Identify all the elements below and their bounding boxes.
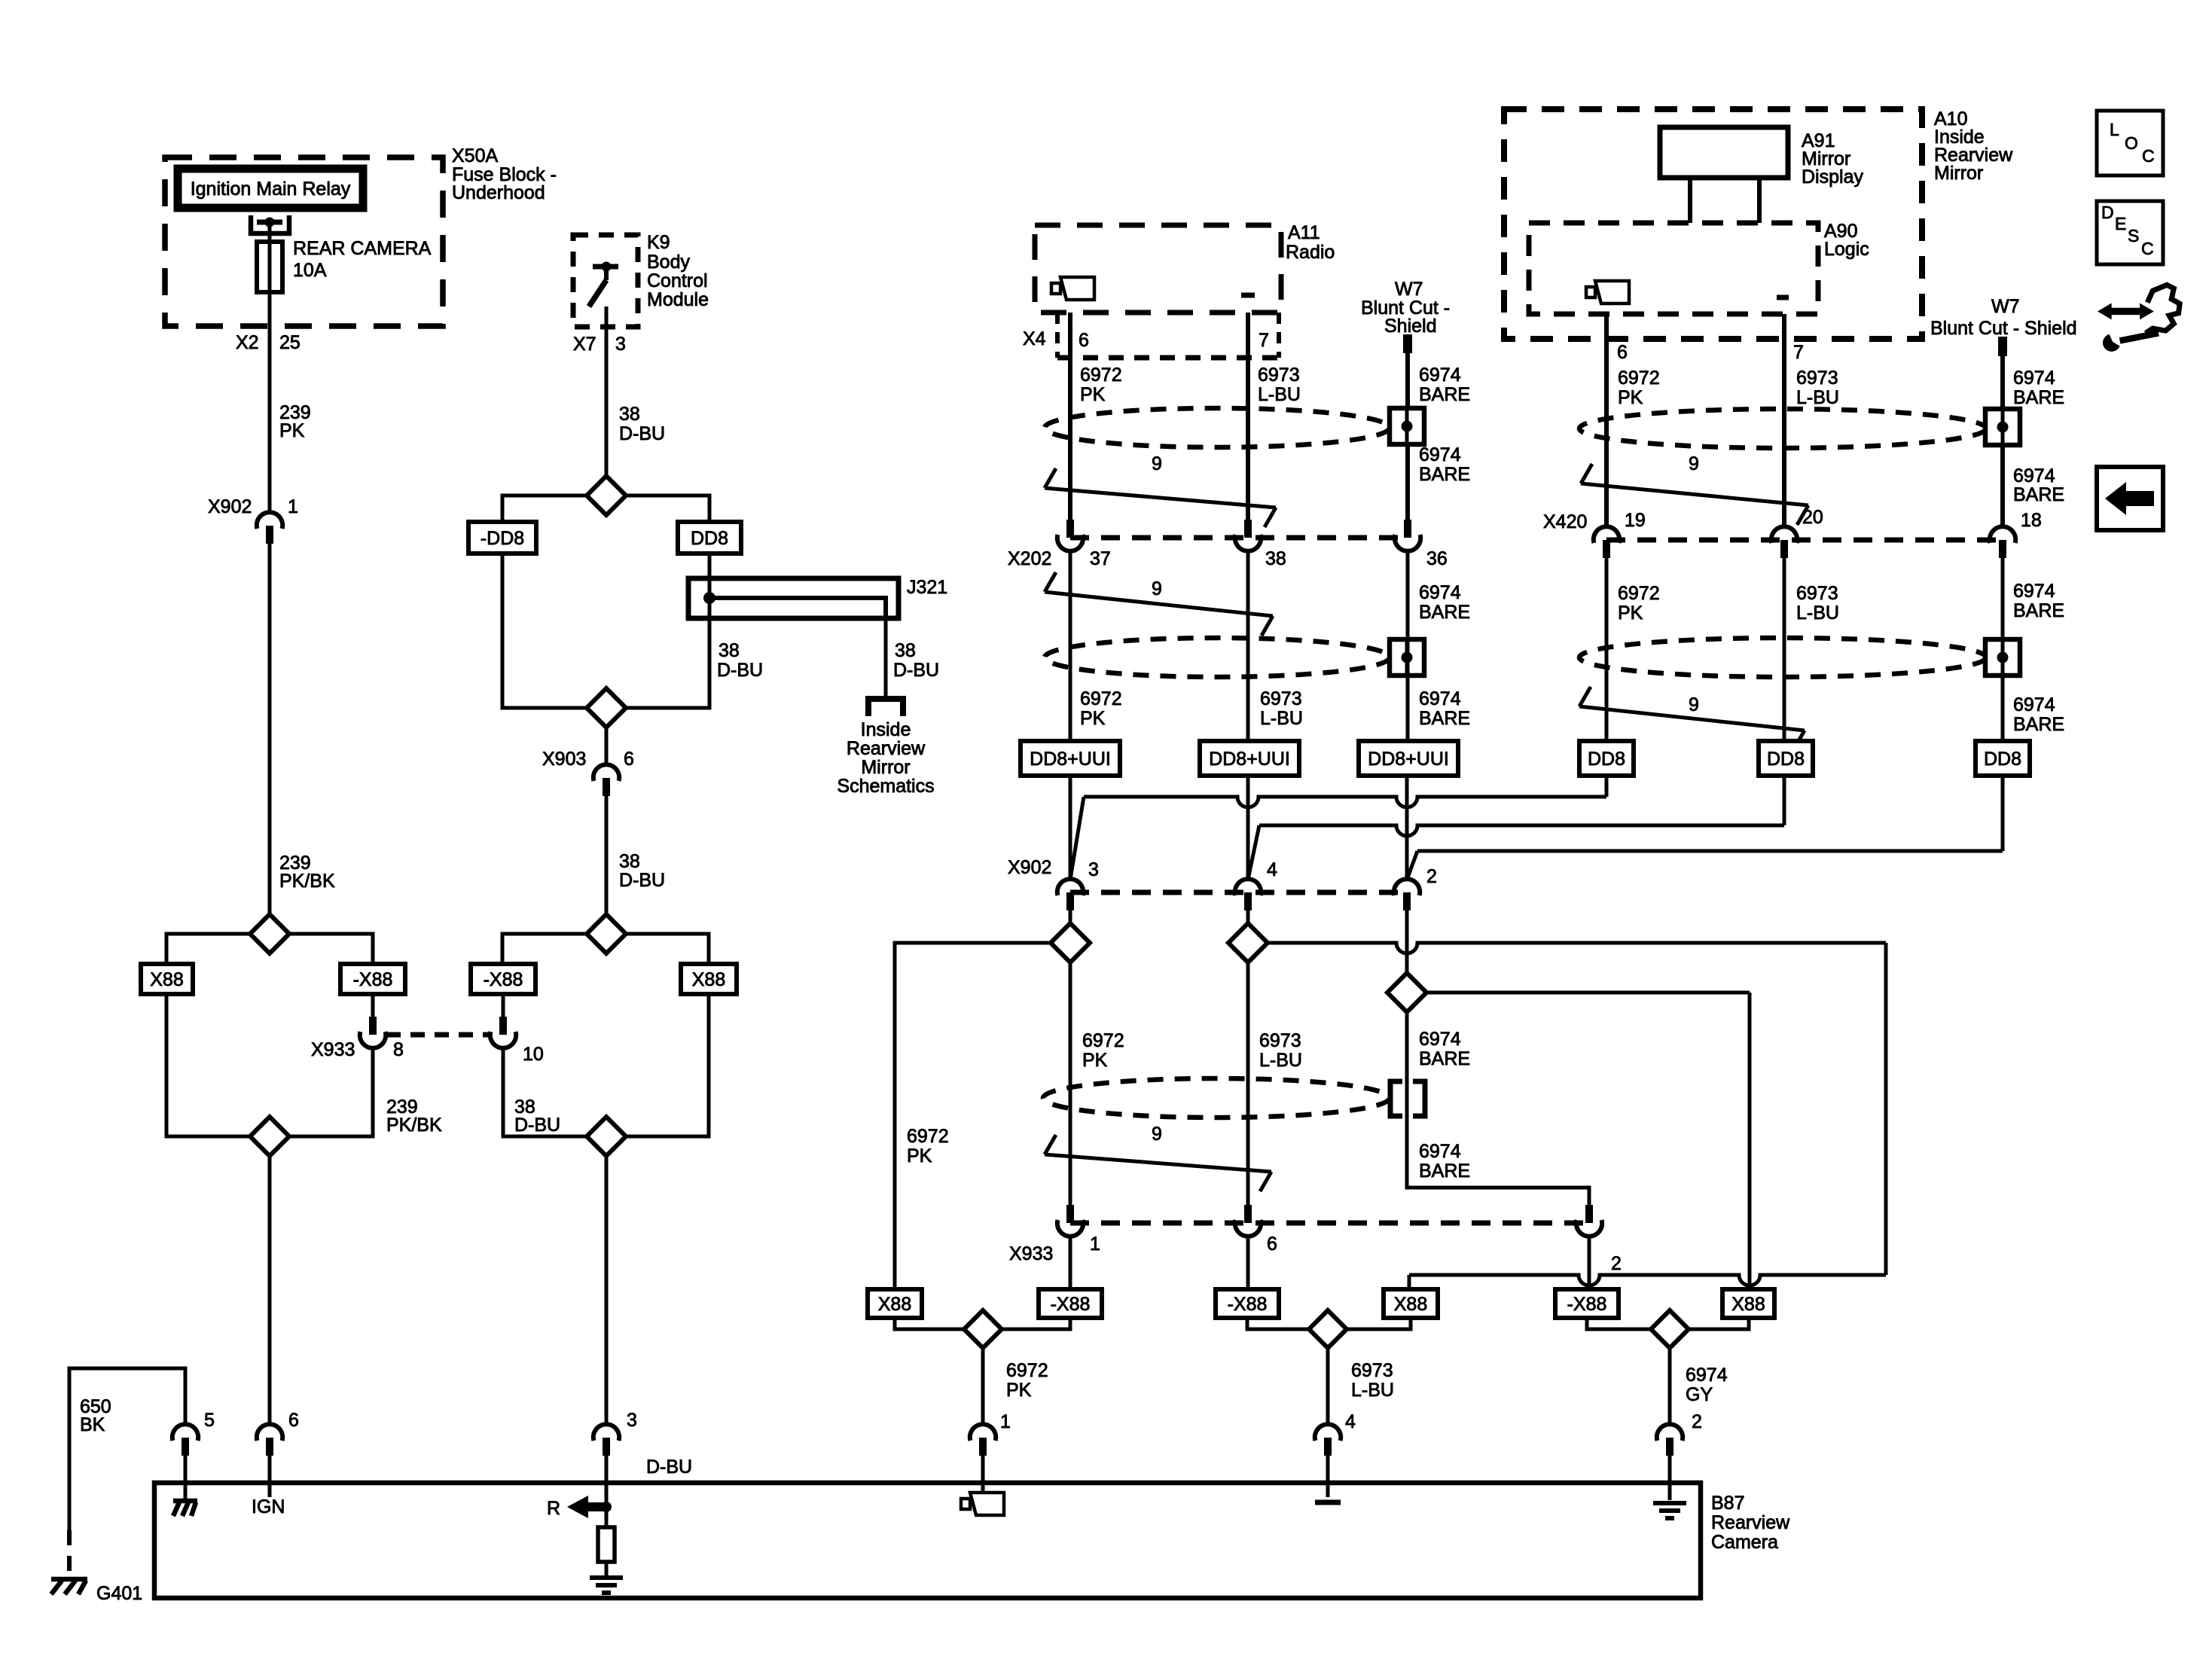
connector X933 pin 8 [311, 994, 404, 1060]
relay contact cup [251, 215, 289, 233]
wire rail DD8 to X902 pin 2 [1407, 776, 2003, 880]
camera icon in B87 [961, 1493, 1004, 1515]
relay K (Ignition Main Relay) [178, 169, 363, 208]
wire 650 BK [69, 1368, 185, 1530]
wire 38 D-BU [606, 306, 665, 476]
minus pin in radio [1241, 293, 1255, 298]
module A11 Radio dashed box [1035, 225, 1281, 313]
svg-text:6974: 6974 [1686, 1365, 1728, 1386]
camera icon in logic [1586, 281, 1629, 303]
svg-text:Radio: Radio [1286, 242, 1335, 263]
connector DD8+UUI [1200, 741, 1299, 776]
svg-text:Body: Body [647, 252, 690, 273]
svg-text:3: 3 [615, 334, 626, 355]
wire 6972 PK pin 1 [983, 1348, 1048, 1432]
connector pin 1 [970, 1424, 996, 1492]
svg-text:BARE: BARE [1419, 708, 1470, 729]
shield bracket connector [1390, 1081, 1425, 1116]
svg-text:2: 2 [1611, 1253, 1622, 1274]
svg-text:18: 18 [2021, 510, 2042, 531]
wire 38 D-BU to offpage [886, 618, 939, 696]
fuse F (REAR CAMERA 10A) [257, 242, 282, 292]
minus pin in logic [1777, 295, 1789, 300]
svg-text:7: 7 [1259, 330, 1269, 351]
svg-text:X202: X202 [1008, 548, 1051, 569]
connector DD8 [1976, 741, 2030, 776]
svg-text:X7: X7 [573, 334, 596, 355]
connector -X88 [1039, 1289, 1102, 1318]
svg-text:1: 1 [1000, 1411, 1011, 1432]
svg-text:Schematics: Schematics [837, 776, 934, 797]
splice diamond [250, 1117, 289, 1156]
svg-text:8: 8 [393, 1039, 404, 1060]
wire 6973 L-BU [1248, 313, 1301, 520]
svg-text:38: 38 [895, 640, 916, 661]
label 6972 PK left branch [907, 1126, 949, 1167]
wire pin 6 6972 PK [1606, 314, 1660, 527]
svg-text:PK: PK [279, 420, 305, 441]
svg-text:38: 38 [619, 404, 640, 425]
connector pin 2 [1657, 1424, 1683, 1500]
label IGN [252, 1496, 285, 1517]
svg-text:W7: W7 [1991, 296, 2020, 317]
connector X933 pin 10 wire 38 D-BU [503, 1048, 587, 1136]
wire 38 D-BU [626, 618, 763, 708]
svg-text:K9: K9 [647, 232, 670, 253]
svg-text:PK: PK [1618, 387, 1643, 408]
splice diamond [1387, 910, 1750, 1289]
svg-text:PK: PK [1618, 602, 1643, 624]
svg-text:D-BU: D-BU [646, 1456, 692, 1478]
svg-text:DD8+UUI: DD8+UUI [1368, 749, 1449, 770]
svg-text:D-BU: D-BU [619, 870, 665, 891]
twisted pair 9 [1579, 687, 1805, 750]
svg-text:-DD8: -DD8 [481, 528, 524, 549]
connector X933 pin 6 [1235, 1205, 1277, 1255]
connector X902 pin 3 [1008, 857, 1099, 910]
wire rail to X88 [1409, 1275, 1886, 1289]
svg-text:X903: X903 [542, 749, 586, 770]
connector DD8 [678, 522, 741, 554]
svg-text:20: 20 [1802, 507, 1823, 528]
svg-text:6972: 6972 [1080, 688, 1122, 709]
svg-text:6973: 6973 [1258, 364, 1300, 386]
shield connector [1390, 408, 1424, 444]
svg-text:D: D [2101, 203, 2114, 222]
svg-text:38: 38 [719, 640, 740, 661]
svg-text:BARE: BARE [1419, 464, 1470, 485]
svg-text:C: C [2142, 146, 2155, 166]
blunt cut start 6974 BARE [1403, 334, 1470, 520]
blunt cut start 6974 BARE [1998, 337, 2064, 527]
svg-text:X88: X88 [1394, 1294, 1427, 1315]
connector X933 pin 2 [1576, 1205, 1622, 1274]
svg-text:BARE: BARE [1419, 602, 1470, 623]
svg-text:6: 6 [1079, 330, 1089, 351]
svg-text:L-BU: L-BU [1796, 387, 1839, 408]
svg-text:L-BU: L-BU [1259, 1050, 1302, 1071]
svg-text:Control: Control [647, 270, 708, 291]
svg-text:6974: 6974 [1419, 444, 1461, 465]
junction block J321 [688, 577, 947, 618]
wire [1588, 1236, 1591, 1289]
wire [1069, 1236, 1072, 1289]
connector -X88 [1216, 1289, 1279, 1318]
svg-text:DD8: DD8 [1767, 749, 1805, 770]
svg-text:BARE: BARE [2013, 714, 2064, 735]
svg-text:6974: 6974 [1419, 688, 1461, 709]
svg-text:9: 9 [1152, 578, 1162, 599]
splice diamond [502, 914, 709, 964]
module A10 dashed box [1504, 109, 1922, 339]
svg-text:D-BU: D-BU [893, 660, 939, 681]
svg-text:L-BU: L-BU [1351, 1380, 1394, 1401]
svg-text:6: 6 [288, 1410, 299, 1431]
svg-text:37: 37 [1090, 548, 1111, 569]
connector X88 [141, 964, 193, 994]
label W7 Blunt Cut - Shield [1930, 296, 2077, 339]
svg-text:DD8+UUI: DD8+UUI [1030, 749, 1111, 770]
svg-text:B87: B87 [1711, 1493, 1744, 1514]
wire rail DD8 to X902 pin 4 [1248, 776, 1784, 880]
svg-text:2: 2 [1692, 1411, 1702, 1432]
wire [268, 222, 272, 242]
svg-text:6974: 6974 [2013, 465, 2055, 486]
connector X88 [1722, 1289, 1774, 1318]
wire [708, 554, 712, 578]
dashed connector line X933 [386, 1032, 490, 1038]
wire 6973 L-BU [1248, 550, 1303, 741]
svg-text:10A: 10A [293, 260, 327, 281]
svg-text:PK/BK: PK/BK [279, 871, 335, 892]
svg-text:X88: X88 [150, 969, 183, 990]
svg-text:PK: PK [1080, 384, 1106, 405]
twisted pair 9 [1581, 453, 1808, 525]
svg-text:6972: 6972 [907, 1126, 949, 1147]
connector -X88 [1555, 1289, 1619, 1318]
svg-text:-X88: -X88 [1051, 1294, 1091, 1315]
wire 239 PK/BK [250, 1048, 442, 1136]
connector DD8 [1759, 741, 1813, 776]
svg-text:6: 6 [624, 749, 634, 770]
resistor in camera [598, 1507, 615, 1575]
svg-text:PK: PK [1080, 708, 1106, 729]
svg-text:PK: PK [1006, 1380, 1032, 1401]
dashed connector line X933 [1070, 1221, 1589, 1226]
shield connector [1390, 639, 1424, 676]
svg-text:Rearview: Rearview [1711, 1512, 1790, 1533]
svg-text:X88: X88 [878, 1294, 911, 1315]
reverse signal R arrow [547, 1496, 612, 1519]
svg-text:38: 38 [1265, 548, 1286, 569]
label A91 Mirror Display [1802, 130, 1863, 188]
svg-text:BK: BK [80, 1414, 105, 1435]
svg-text:PK: PK [1082, 1050, 1108, 1071]
svg-text:X88: X88 [1731, 1294, 1765, 1315]
label B87 Rearview Camera [1711, 1493, 1790, 1553]
svg-text:X420: X420 [1543, 511, 1587, 532]
label X50A Fuse Block - Underhood [452, 145, 557, 203]
connector X202 pin 37 [1008, 520, 1111, 569]
connector X88 [1384, 1289, 1438, 1318]
svg-text:36: 36 [1426, 548, 1448, 569]
wire pin 7 6973 L-BU [1784, 314, 1839, 527]
svg-text:E: E [2115, 214, 2126, 233]
connector -X88 [471, 964, 535, 994]
svg-text:DD8: DD8 [1588, 749, 1625, 770]
svg-text:6974: 6974 [1419, 582, 1461, 603]
svg-text:Ignition Main Relay: Ignition Main Relay [191, 178, 351, 200]
svg-text:L: L [2110, 120, 2119, 139]
wire 6973 L-BU pin 4 [1328, 1348, 1394, 1432]
splice diamond [587, 1117, 626, 1156]
splice diamond [895, 910, 1090, 1289]
connector -X88 [340, 964, 405, 994]
svg-text:6972: 6972 [1006, 1360, 1048, 1381]
label W7 Blunt Cut - Shield [1361, 279, 1450, 337]
svg-text:W7: W7 [1395, 279, 1423, 300]
svg-text:6973: 6973 [1796, 583, 1838, 604]
connector pin 5 [172, 1410, 215, 1500]
connector X420 pin 20 [1771, 507, 1823, 558]
svg-text:O: O [2125, 133, 2138, 153]
svg-text:BARE: BARE [2013, 600, 2064, 621]
svg-text:7: 7 [1793, 342, 1804, 363]
svg-text:3: 3 [1088, 859, 1099, 880]
twisted pair 9 [1045, 1124, 1271, 1191]
svg-text:X902: X902 [1008, 857, 1051, 878]
wire to IGN [268, 1156, 272, 1425]
label A10 Inside Rearview Mirror [1934, 108, 2013, 184]
svg-text:D-BU: D-BU [514, 1115, 560, 1136]
wire 6972 PK [1606, 558, 1660, 741]
shield ellipse [1045, 638, 1390, 677]
wire [502, 554, 587, 708]
svg-text:D-BU: D-BU [717, 660, 763, 681]
svg-text:3: 3 [627, 1410, 637, 1431]
svg-text:Rearview: Rearview [847, 738, 926, 759]
svg-text:BARE: BARE [2013, 387, 2064, 408]
shield ellipse [1579, 409, 1986, 448]
splice diamond [166, 914, 373, 964]
ground earth in B87 [1653, 1503, 1686, 1518]
svg-text:10: 10 [523, 1044, 544, 1065]
svg-text:DD8: DD8 [1984, 749, 2021, 770]
svg-text:X2: X2 [236, 332, 259, 353]
shield connector [1985, 409, 2020, 445]
splice diamond [895, 1310, 1070, 1348]
connector X902 pin 2 [1394, 866, 1437, 910]
label 6974 BARE [1419, 444, 1470, 485]
wire 6972 PK [1070, 962, 1124, 1205]
svg-text:-X88: -X88 [353, 969, 393, 990]
splice diamond [1247, 1310, 1411, 1348]
label A11 Radio [1286, 222, 1335, 263]
label 6974 BARE [2013, 465, 2064, 505]
svg-text:6: 6 [1267, 1234, 1277, 1255]
svg-text:4: 4 [1267, 859, 1277, 880]
svg-text:Mirror: Mirror [861, 757, 910, 778]
pins X4 6 7 [1023, 328, 1269, 351]
svg-text:L-BU: L-BU [1258, 384, 1301, 405]
label 239 PK [279, 402, 311, 441]
svg-text:S: S [2128, 226, 2139, 246]
svg-text:6974: 6974 [2013, 694, 2055, 715]
dashed wire to G401 [67, 1530, 72, 1577]
svg-text:-X88: -X88 [484, 969, 523, 990]
fuse block X50A dashed box [165, 157, 443, 326]
connector pin 3 [593, 1410, 692, 1507]
connector DD8 [1579, 741, 1634, 776]
svg-text:Blunt Cut - Shield: Blunt Cut - Shield [1930, 318, 2077, 339]
connector X903 pin 6 [542, 727, 634, 796]
svg-text:X4: X4 [1023, 328, 1046, 349]
svg-text:DD8: DD8 [691, 528, 728, 549]
connector X933 pin 10 [490, 994, 544, 1065]
connector DD8+UUI [1021, 741, 1120, 776]
svg-text:6974: 6974 [1419, 364, 1461, 386]
connector DD8+UUI [1359, 741, 1458, 776]
wire 6974 BARE [2003, 558, 2064, 741]
icon DESC box [2097, 201, 2163, 264]
wire 6974 GY pin 2 [1670, 1348, 1728, 1432]
svg-text:9: 9 [1689, 453, 1699, 474]
dashed connector line X420 [1606, 538, 2003, 543]
svg-text:X50A: X50A [452, 145, 498, 166]
svg-text:6972: 6972 [1080, 364, 1122, 386]
svg-text:5: 5 [204, 1410, 215, 1431]
svg-text:IGN: IGN [252, 1496, 285, 1517]
ground G401 [51, 1579, 142, 1604]
svg-text:1: 1 [1090, 1234, 1100, 1255]
shield ellipse [1579, 638, 1986, 677]
svg-text:J321: J321 [907, 577, 947, 598]
svg-text:Mirror: Mirror [1934, 163, 1983, 184]
connector X202 pin 36 [1395, 520, 1448, 569]
wire 239 PK [268, 292, 272, 513]
svg-text:L-BU: L-BU [1796, 602, 1839, 624]
svg-text:-X88: -X88 [1228, 1294, 1268, 1315]
svg-text:6974: 6974 [1419, 1029, 1461, 1050]
module K9 dashed box [573, 235, 638, 327]
svg-text:6972: 6972 [1618, 367, 1660, 389]
wire to R [605, 1156, 609, 1425]
wire rail DD8 to X902 pin 3 [1070, 776, 1606, 880]
wire [1069, 776, 1072, 880]
svg-text:BARE: BARE [1419, 384, 1470, 405]
camera B87 Rearview Camera box [154, 1483, 1701, 1598]
connector X420 pin 18 [1990, 510, 2042, 558]
pin X7 3 [573, 334, 626, 355]
wire [1246, 776, 1250, 880]
module A90 Logic dashed box [1529, 223, 1818, 314]
svg-text:X88: X88 [692, 969, 725, 990]
svg-text:X902: X902 [208, 496, 252, 517]
dashed connector line X202 [1070, 535, 1408, 541]
svg-text:Logic: Logic [1824, 239, 1869, 260]
minus pin in B87 [1315, 1500, 1341, 1505]
svg-text:6974: 6974 [2013, 581, 2055, 602]
connector X88 [868, 1289, 922, 1318]
svg-text:6973: 6973 [1796, 367, 1838, 389]
svg-text:BARE: BARE [1419, 1160, 1470, 1182]
connector X4 strip [1057, 313, 1279, 358]
svg-text:Module: Module [647, 289, 709, 310]
svg-text:X933: X933 [311, 1039, 355, 1060]
wire 6973 L-BU [1248, 962, 1302, 1205]
wire [1405, 776, 1409, 880]
svg-text:G401: G401 [96, 1583, 142, 1604]
svg-text:BARE: BARE [2013, 484, 2064, 505]
dashed connector line X902 [1070, 890, 1407, 895]
connector X902 pin 1 [208, 496, 298, 544]
shield ellipse [1045, 408, 1390, 447]
wire 6972 PK [1070, 550, 1122, 741]
svg-text:DD8+UUI: DD8+UUI [1209, 749, 1290, 770]
pin X2 25 [236, 332, 301, 353]
twisted pair 9 [1045, 572, 1273, 636]
camera icon in radio [1051, 277, 1094, 300]
wire 6972 PK [1070, 313, 1122, 520]
icon back arrow box [2097, 467, 2163, 530]
svg-text:2: 2 [1426, 866, 1437, 887]
svg-text:9: 9 [1689, 694, 1699, 715]
connector -DD8 [468, 522, 536, 554]
wire [626, 994, 709, 1136]
svg-text:6: 6 [1617, 342, 1628, 363]
wire 38 D-BU [606, 796, 665, 914]
svg-text:X933: X933 [1009, 1243, 1053, 1264]
svg-text:38: 38 [619, 851, 640, 872]
svg-text:6973: 6973 [1351, 1360, 1393, 1381]
connector X933 pin 1 [1009, 1205, 1100, 1264]
label REAR CAMERA 10A [293, 238, 432, 281]
connector X902 pin 4 [1235, 859, 1277, 910]
svg-text:PK/BK: PK/BK [386, 1115, 442, 1136]
svg-text:Shield: Shield [1384, 316, 1437, 337]
label K9 Body Control Module [647, 232, 709, 310]
svg-text:REAR CAMERA: REAR CAMERA [293, 238, 432, 259]
splice diamond [587, 688, 626, 727]
wire 6974 BARE [1407, 1012, 1589, 1205]
svg-text:4: 4 [1345, 1411, 1356, 1432]
svg-text:L-BU: L-BU [1260, 708, 1303, 729]
connector X420 pin 19 [1543, 510, 1646, 558]
svg-text:Display: Display [1802, 166, 1863, 188]
svg-text:Inside: Inside [861, 719, 911, 740]
wire [166, 994, 250, 1136]
svg-text:-X88: -X88 [1567, 1294, 1607, 1315]
svg-text:Underhood: Underhood [452, 182, 545, 203]
svg-text:GY: GY [1686, 1384, 1713, 1405]
svg-text:6974: 6974 [2013, 367, 2055, 389]
svg-text:6973: 6973 [1259, 1030, 1301, 1051]
ground earth below resistor [590, 1578, 623, 1593]
svg-text:9: 9 [1152, 453, 1162, 474]
svg-text:BARE: BARE [1419, 1048, 1470, 1069]
wire 6973 L-BU [1784, 558, 1839, 741]
connector pin 6 [257, 1410, 299, 1497]
splice diamond [502, 476, 709, 522]
ground hatch inside camera [173, 1501, 197, 1516]
shield connector [1985, 639, 2020, 676]
twisted pair 9 [1045, 453, 1276, 527]
svg-text:19: 19 [1625, 510, 1646, 531]
svg-text:PK: PK [907, 1145, 932, 1167]
svg-text:6972: 6972 [1618, 583, 1660, 604]
svg-text:R: R [547, 1498, 560, 1519]
wire [1246, 1236, 1250, 1289]
